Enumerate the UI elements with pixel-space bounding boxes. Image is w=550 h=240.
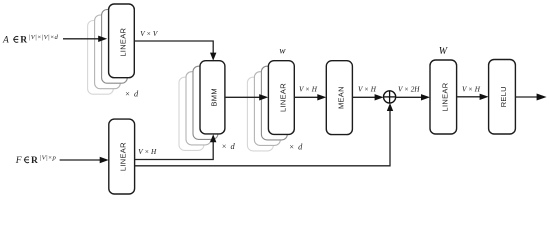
- svg-text:LINEAR: LINEAR: [440, 82, 449, 111]
- svg-text:A: A: [2, 36, 9, 46]
- svg-text:V × H: V × H: [462, 86, 481, 94]
- svg-text:RELU: RELU: [499, 86, 508, 107]
- svg-text:× d: × d: [289, 142, 303, 151]
- block RELU: [489, 60, 516, 135]
- wire RELU final output arrow: [515, 94, 546, 101]
- wire L2 out2 to oplus bottom: [135, 103, 394, 166]
- label F input formula: [15, 155, 57, 166]
- wire LINEAR2 out to MEAN: [294, 94, 326, 100]
- svg-text:× d: × d: [125, 89, 139, 98]
- block LINEAR3: [430, 60, 457, 134]
- svg-text:F: F: [15, 156, 22, 166]
- svg-text:V × 2H: V × 2H: [398, 85, 420, 93]
- block L1 LINEAR stack (×d): [88, 4, 135, 94]
- wire A arrow into L1: [63, 36, 107, 42]
- wire LINEAR3 out to RELU: [457, 94, 489, 100]
- svg-text:LINEAR: LINEAR: [278, 83, 287, 112]
- block LINEAR2 stack (×d): [247, 61, 294, 151]
- svg-text:|V|×p: |V|×p: [40, 155, 57, 162]
- wire L1 out to BMM top: [134, 41, 216, 61]
- svg-text:BMM: BMM: [209, 88, 218, 106]
- svg-text:LINEAR: LINEAR: [118, 27, 127, 56]
- svg-text:× d: × d: [221, 142, 235, 151]
- svg-text:w: w: [279, 45, 286, 55]
- svg-text:V × V: V × V: [140, 30, 159, 38]
- svg-text:|V|×|V|×d: |V|×|V|×d: [29, 34, 59, 41]
- block L2 LINEAR (bottom): [109, 119, 135, 194]
- block BMM stack (×d): [179, 61, 225, 151]
- svg-text:V × H: V × H: [138, 148, 157, 156]
- svg-text:MEAN: MEAN: [336, 86, 345, 109]
- block MEAN: [326, 61, 352, 135]
- svg-text:V × H: V × H: [358, 85, 377, 93]
- svg-text:R: R: [31, 156, 38, 166]
- wire L2 out1 to BMM bottom: [135, 134, 217, 159]
- wire oplus out to LINEAR3: [396, 94, 430, 100]
- svg-text:V × H: V × H: [299, 86, 318, 94]
- label A input formula: [2, 34, 59, 45]
- wire BMM out to LINEAR2: [225, 94, 268, 100]
- svg-text:R: R: [20, 36, 27, 46]
- wire MEAN out to oplus: [352, 94, 383, 100]
- wire F arrow into L2: [60, 157, 109, 163]
- oplus concat node: [384, 91, 396, 103]
- svg-text:LINEAR: LINEAR: [119, 142, 128, 171]
